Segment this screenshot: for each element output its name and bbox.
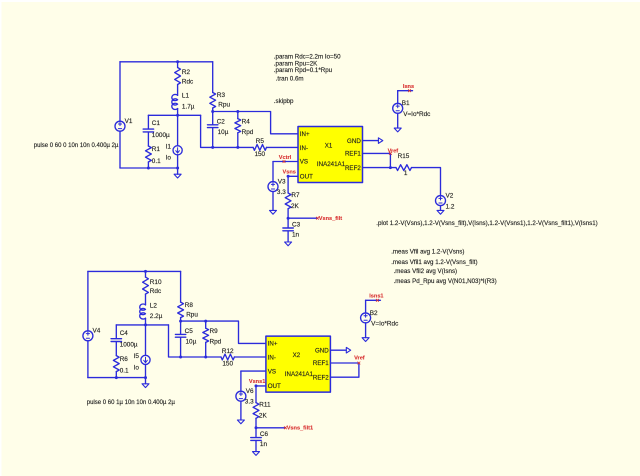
svg-text:.meas Vfil2 avg V(Isns): .meas Vfil2 avg V(Isns) <box>394 268 458 275</box>
svg-text:V4: V4 <box>93 327 101 334</box>
svg-text:Vsns_filt: Vsns_filt <box>319 216 342 222</box>
svg-text:pulse 0 60 1µ 10n 10n 0.400µ 2: pulse 0 60 1µ 10n 10n 0.400µ 2µ <box>87 400 176 406</box>
svg-text:Rdc: Rdc <box>182 79 194 86</box>
svg-text:0.1: 0.1 <box>152 158 161 165</box>
svg-text:.tran 0.6m: .tran 0.6m <box>276 76 304 83</box>
svg-text:R7: R7 <box>291 192 300 199</box>
svg-text:I5: I5 <box>134 353 140 360</box>
svg-text:R5: R5 <box>256 138 265 145</box>
svg-text:.meas Vfil1 avg 1.2-V(Vsns_fil: .meas Vfil1 avg 1.2-V(Vsns_filt) <box>391 259 477 266</box>
svg-text:Vsns_filt1: Vsns_filt1 <box>287 426 313 432</box>
svg-text:Vsns: Vsns <box>283 169 296 175</box>
svg-text:INA241A1: INA241A1 <box>317 161 346 168</box>
svg-text:Rdc: Rdc <box>150 288 162 295</box>
svg-text:C4: C4 <box>120 330 129 337</box>
svg-text:L1: L1 <box>182 93 190 100</box>
svg-text:V=Io*Rdc: V=Io*Rdc <box>371 321 399 328</box>
svg-text:1n: 1n <box>260 441 268 448</box>
svg-text:Io: Io <box>166 155 172 162</box>
svg-text:1000µ: 1000µ <box>120 342 138 349</box>
svg-text:REF2: REF2 <box>345 165 361 172</box>
svg-text:OUT: OUT <box>300 174 313 181</box>
svg-text:C1: C1 <box>152 120 161 127</box>
svg-text:IN-: IN- <box>300 145 308 152</box>
svg-text:V6: V6 <box>246 388 254 395</box>
svg-text:GND: GND <box>315 347 329 354</box>
svg-text:Io: Io <box>134 364 140 371</box>
svg-text:150: 150 <box>254 151 265 158</box>
svg-text:IN+: IN+ <box>268 341 278 348</box>
svg-text:R6: R6 <box>120 356 129 363</box>
svg-text:B1: B1 <box>402 100 410 107</box>
svg-text:C6: C6 <box>260 431 269 438</box>
svg-text:2.2µ: 2.2µ <box>150 313 163 320</box>
svg-text:1.2: 1.2 <box>446 204 455 211</box>
svg-text:150: 150 <box>222 361 233 368</box>
svg-text:VS: VS <box>300 159 308 166</box>
svg-text:1n: 1n <box>292 232 300 239</box>
svg-text:2K: 2K <box>291 203 300 210</box>
svg-text:R11: R11 <box>259 401 271 408</box>
svg-text:R12: R12 <box>222 348 234 355</box>
svg-text:0.1: 0.1 <box>120 368 129 375</box>
svg-text:V2: V2 <box>446 193 454 200</box>
svg-text:B2: B2 <box>370 310 378 317</box>
svg-text:IN+: IN+ <box>300 131 310 138</box>
svg-text:V=Io*Rdc: V=Io*Rdc <box>403 111 431 118</box>
svg-text:R9: R9 <box>210 328 219 335</box>
svg-text:Vref: Vref <box>354 355 365 361</box>
svg-text:C5: C5 <box>185 328 194 335</box>
svg-text:VS: VS <box>268 368 276 375</box>
svg-text:X1: X1 <box>325 143 333 150</box>
svg-text:GND: GND <box>347 138 361 145</box>
svg-text:3.3: 3.3 <box>245 399 254 406</box>
svg-text:.plot 1.2-V(Vsns),1.2-V(Vsns_f: .plot 1.2-V(Vsns),1.2-V(Vsns_filt),V(Isn… <box>376 220 597 227</box>
svg-text:.param Rpd=0.1*Rpu: .param Rpd=0.1*Rpu <box>274 67 333 74</box>
svg-text:1: 1 <box>404 170 408 177</box>
svg-text:2K: 2K <box>259 413 268 420</box>
svg-text:X2: X2 <box>293 352 301 359</box>
svg-text:Rpu: Rpu <box>218 102 230 109</box>
svg-text:L2: L2 <box>150 302 158 309</box>
svg-text:IN-: IN- <box>268 354 276 361</box>
svg-text:R2: R2 <box>182 69 191 76</box>
svg-text:10µ: 10µ <box>218 129 229 136</box>
svg-text:R15: R15 <box>398 153 410 160</box>
svg-text:C2: C2 <box>217 119 226 126</box>
svg-text:1000µ: 1000µ <box>152 132 170 139</box>
svg-text:10µ: 10µ <box>186 339 197 346</box>
svg-text:Rpd: Rpd <box>210 339 222 346</box>
svg-text:R4: R4 <box>242 119 251 126</box>
svg-text:.param Rdc=2.2m Io=50: .param Rdc=2.2m Io=50 <box>274 53 341 60</box>
svg-text:V1: V1 <box>125 118 133 125</box>
svg-text:V3: V3 <box>278 179 286 186</box>
svg-text:INA241A1: INA241A1 <box>285 371 314 378</box>
svg-text:Vsns1: Vsns1 <box>249 379 265 385</box>
svg-text:pulse 0 60 0 10n 10n 0.400µ 2µ: pulse 0 60 0 10n 10n 0.400µ 2µ <box>34 143 119 149</box>
svg-text:R3: R3 <box>217 92 226 99</box>
svg-text:.meas Vfil avg 1.2-V(Vsns): .meas Vfil avg 1.2-V(Vsns) <box>391 248 464 255</box>
svg-text:REF2: REF2 <box>313 374 329 381</box>
svg-text:R1: R1 <box>152 146 161 153</box>
svg-text:I1: I1 <box>166 144 172 151</box>
svg-text:1.7µ: 1.7µ <box>182 104 195 111</box>
svg-text:3.3: 3.3 <box>277 189 286 196</box>
svg-text:OUT: OUT <box>268 383 281 390</box>
svg-text:.skipbp: .skipbp <box>274 98 294 105</box>
svg-text:REF1: REF1 <box>313 360 329 367</box>
svg-text:C3: C3 <box>292 222 301 229</box>
svg-text:R10: R10 <box>150 279 162 286</box>
svg-text:REF1: REF1 <box>345 151 361 158</box>
svg-text:Rpu: Rpu <box>186 311 198 318</box>
svg-text:.meas Pd_Rpu avg V(N01,N03)*I(: .meas Pd_Rpu avg V(N01,N03)*I(R3) <box>394 278 497 285</box>
svg-text:R8: R8 <box>185 302 194 309</box>
svg-text:Rpd: Rpd <box>242 129 254 136</box>
